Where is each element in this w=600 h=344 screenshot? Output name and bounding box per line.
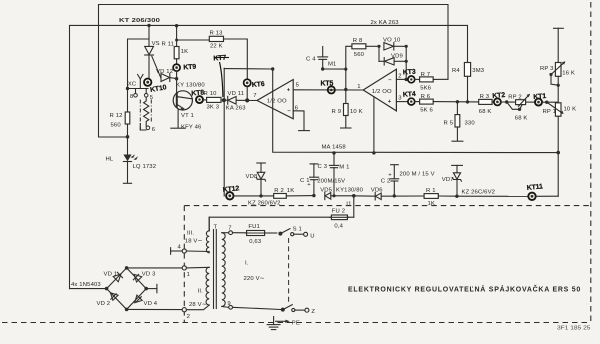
terminal 9 primary (222, 301, 233, 309)
node VS anode junction (147, 24, 150, 27)
svg-text:1: 1 (187, 272, 190, 278)
terminal 4 with stub (171, 245, 209, 255)
svg-text:3F1 185 25: 3F1 185 25 (557, 326, 591, 332)
wire main supply bus y=25 (70, 25, 468, 288)
wire feedback top line from R7 to left column (99, 5, 449, 138)
svg-text:KT1: KT1 (533, 93, 547, 101)
svg-text:R 10: R 10 (204, 91, 218, 97)
label 2x KA 263 (371, 20, 400, 26)
svg-text:VD 1: VD 1 (104, 272, 118, 278)
svg-text:I1: I1 (346, 202, 351, 208)
label KT 206/300 (119, 18, 161, 24)
svg-text:LQ 1732: LQ 1732 (133, 164, 157, 170)
svg-text:560: 560 (111, 122, 122, 128)
wire branch XC from VS anode (128, 39, 150, 89)
wire U1b noninverting input (396, 101, 408, 103)
diode VD12 (156, 69, 177, 82)
wire vertical to KT12 (223, 68, 225, 196)
svg-text:KT6: KT6 (252, 81, 266, 89)
svg-text:VD7: VD7 (442, 177, 454, 183)
svg-text:28 V∼: 28 V∼ (189, 302, 207, 308)
svg-text:R 5: R 5 (444, 120, 454, 126)
svg-text:8: 8 (130, 94, 134, 100)
capacitor C2 (381, 165, 435, 198)
svg-text:4x 1N5403: 4x 1N5403 (71, 282, 101, 288)
svg-text:220 V∼: 220 V∼ (244, 276, 265, 282)
svg-text:68 K: 68 K (515, 116, 528, 122)
svg-text:R4: R4 (452, 68, 460, 74)
diode VD10 (383, 37, 406, 50)
thyristor VS (145, 25, 161, 78)
test point KT12 (222, 185, 239, 199)
diode VD9 (379, 53, 406, 65)
svg-text:VD 2: VD 2 (97, 301, 111, 307)
wire KT12 to VD8 (234, 195, 274, 197)
svg-text:3K 3: 3K 3 (207, 105, 220, 111)
connector pin 6 (146, 126, 156, 133)
svg-text:+: + (388, 173, 392, 179)
heater core L (140, 124, 146, 131)
svg-text:0,4: 0,4 (334, 223, 343, 229)
svg-text:7: 7 (228, 226, 231, 232)
svg-text:2: 2 (398, 73, 401, 79)
switch S1 upper pole (278, 227, 303, 236)
wire bridge to terminal 2 (127, 308, 183, 310)
svg-text:6: 6 (152, 127, 156, 133)
svg-text:R 13: R 13 (210, 30, 224, 36)
svg-text:VD 4: VD 4 (144, 301, 158, 307)
ground chassis stub bridge negative (146, 284, 157, 292)
test point KT11 (526, 183, 543, 200)
resistor R9 (332, 90, 363, 129)
fuse FU2 (209, 208, 354, 230)
terminal Z (305, 308, 316, 315)
svg-text:RP 2: RP 2 (508, 94, 522, 100)
svg-text:KA 263: KA 263 (226, 105, 246, 111)
svg-text:VD 11: VD 11 (228, 91, 245, 97)
svg-text:R 2: R 2 (274, 188, 284, 194)
svg-text:10 K: 10 K (350, 109, 363, 115)
svg-text:VD 12: VD 12 (156, 69, 173, 75)
connector pin 5 (144, 89, 153, 102)
diode VD11 (226, 91, 257, 111)
svg-text:1/2 OO: 1/2 OO (372, 89, 392, 95)
op-amp U1b 1/2 MA1458 (357, 69, 402, 111)
svg-text:R 1: R 1 (426, 188, 436, 194)
wire op-amp U1a noninverting input to U1b output (293, 89, 363, 91)
svg-text:330: 330 (465, 120, 476, 126)
svg-text:3: 3 (398, 95, 402, 101)
svg-text:FU 2: FU 2 (332, 208, 345, 214)
svg-text:KT3: KT3 (403, 69, 416, 77)
svg-text:ELEKTRONICKY REGULOVATEĽNÁ SPÁ: ELEKTRONICKY REGULOVATEĽNÁ SPÁJKOVAČKA E… (348, 285, 581, 294)
wire U1b inverting input (396, 78, 408, 80)
svg-text:S 1: S 1 (293, 227, 302, 233)
resistor R7 (415, 72, 448, 92)
switch gang dashed link (288, 238, 290, 305)
resistor R8 feedback (346, 38, 379, 89)
wire KT11 to RP1 bottom (536, 195, 559, 197)
svg-text:KT9: KT9 (183, 64, 196, 72)
op-amp U1a 1/2 MA1458 (253, 80, 299, 119)
svg-text:KT4: KT4 (403, 91, 416, 99)
heating element dashed box (140, 100, 151, 132)
wire op-amp U1b power pin to bus (372, 97, 375, 155)
label drawing number 3F1 185 25 (557, 326, 591, 332)
node R11 top junction (175, 24, 178, 27)
resistor R11 (162, 26, 189, 64)
svg-text:II.: II. (198, 289, 204, 295)
test point KT10 (144, 79, 167, 94)
svg-text:7: 7 (253, 93, 256, 99)
transformer winding III (185, 217, 209, 253)
wire KT1 to RP1 (542, 101, 558, 104)
svg-text:MA 1458: MA 1458 (322, 144, 347, 150)
ground earth PE (267, 317, 300, 330)
svg-text:R 8: R 8 (353, 38, 363, 44)
test point KT8 (191, 89, 205, 103)
node VD10 left junction (377, 45, 380, 62)
test point KT6 (244, 79, 266, 102)
svg-text:U: U (310, 233, 314, 239)
svg-text:C 3: C 3 (318, 164, 328, 170)
svg-text:4: 4 (178, 245, 182, 251)
wire KT9 to VD12 node (175, 71, 178, 92)
wire vertical through U1a to common bus (273, 69, 559, 153)
test point KT4 (403, 91, 416, 105)
svg-text:2x KA 263: 2x KA 263 (371, 20, 400, 26)
diode VD2 (97, 293, 119, 308)
svg-text:C 2: C 2 (381, 178, 391, 184)
svg-text:1K: 1K (181, 49, 189, 55)
transformer T core (214, 225, 218, 309)
svg-text:1K: 1K (428, 201, 436, 207)
svg-text:KT5: KT5 (321, 81, 334, 88)
svg-text:VD8: VD8 (246, 174, 258, 180)
LED HL (106, 137, 157, 184)
resistor R12 (110, 89, 130, 137)
svg-text:RP 1: RP 1 (543, 109, 557, 115)
svg-text:+: + (388, 99, 392, 105)
transformer winding II (186, 267, 209, 309)
svg-text:KZ 26C/6V2: KZ 26C/6V2 (462, 190, 496, 196)
diode VD5 (320, 187, 363, 199)
svg-text:9: 9 (227, 301, 230, 307)
svg-text:M1: M1 (328, 61, 336, 67)
heater winding zigzag (144, 97, 149, 126)
svg-text:XC: XC (128, 81, 137, 87)
test point KT3 (403, 69, 416, 83)
svg-text:VD6: VD6 (371, 188, 383, 194)
svg-text:R 7: R 7 (421, 72, 431, 78)
resistor R6 (415, 94, 479, 114)
diode VD3 (133, 272, 156, 282)
resistor R10 (203, 91, 228, 111)
diode VD6 (354, 188, 424, 200)
svg-text:5K6: 5K6 (420, 85, 432, 91)
rectifier bridge VD1 VD2 VD3 VD4 (105, 266, 148, 311)
transformer winding I primary (222, 233, 265, 307)
svg-text:560: 560 (354, 52, 365, 58)
capacitor C1 (300, 164, 345, 197)
wire VD7 to KT11 (457, 195, 528, 197)
terminal 2 (182, 308, 190, 321)
svg-text:0,63: 0,63 (249, 239, 262, 245)
test point KT9 (173, 64, 196, 72)
terminal 1 (182, 266, 190, 278)
wire dashed enclosure border top of power section (184, 205, 590, 207)
terminal U (304, 232, 315, 239)
svg-text:18 V∼: 18 V∼ (185, 239, 203, 245)
zener diode VD8 (246, 163, 281, 206)
svg-text:KY130/80: KY130/80 (336, 187, 364, 193)
node I1 junction (346, 194, 355, 217)
wire dashed enclosure border right (590, 2, 592, 323)
svg-text:HL: HL (106, 157, 114, 163)
potentiometer RP3 (540, 28, 575, 103)
switch S1 lower pole (233, 305, 305, 312)
node VD9 VD10 right junction to inverting input (405, 45, 408, 81)
svg-text:2: 2 (187, 314, 190, 320)
svg-text:1: 1 (357, 84, 360, 90)
test point KT5 (321, 81, 335, 94)
fuse FU1 (233, 224, 277, 245)
label KT7 with pointer (213, 55, 229, 97)
wire DC positive to bridge (70, 282, 107, 289)
svg-text:R 6: R 6 (421, 94, 431, 100)
svg-text:VS: VS (152, 41, 160, 47)
node C4 branch left (271, 67, 274, 70)
svg-text:22 K: 22 K (210, 43, 223, 49)
svg-text:+: + (287, 87, 291, 93)
wire XC node bar (128, 88, 149, 90)
wire KT2 to RP2 (501, 100, 516, 103)
svg-text:VT 1: VT 1 (181, 113, 194, 119)
svg-text:R 9: R 9 (332, 109, 342, 115)
diode VD4 (135, 295, 158, 307)
svg-text:1K: 1K (287, 188, 295, 194)
svg-text:KFY 46: KFY 46 (181, 125, 202, 131)
connector pin 8 (130, 89, 137, 101)
svg-text:16 K: 16 K (562, 70, 575, 76)
zener diode VD7 (442, 165, 495, 198)
svg-text:Z: Z (311, 309, 315, 315)
svg-text:VD5: VD5 (320, 187, 332, 193)
svg-text:+: + (307, 182, 311, 188)
svg-text:1/2 OO: 1/2 OO (267, 99, 287, 105)
svg-text:R 11: R 11 (162, 42, 175, 48)
node R10 VD11 junction to KT12 branch (222, 98, 226, 102)
test point KT1 (533, 93, 547, 106)
capacitor C3 (318, 151, 350, 197)
svg-text:T: T (214, 225, 218, 231)
svg-text:68 K: 68 K (479, 109, 492, 115)
svg-text:200 M / 15 V: 200 M / 15 V (400, 171, 435, 177)
connector Y fork (138, 75, 143, 89)
svg-text:10 K: 10 K (564, 106, 577, 112)
wire bridge to terminal 1 (127, 267, 183, 269)
svg-text:RP 3: RP 3 (540, 66, 554, 72)
svg-text:VD9: VD9 (391, 53, 403, 59)
node R5 junction (456, 100, 459, 103)
svg-text:KT 206/300: KT 206/300 (119, 18, 161, 24)
potentiometer RP2 (507, 94, 535, 122)
svg-text:III.: III. (187, 230, 194, 236)
resistor R2 (274, 188, 314, 198)
ground op-amp U1a inverting input (293, 111, 309, 131)
resistor R13 (175, 30, 247, 79)
node R12 HL junction (126, 135, 130, 139)
label MA 1458 (322, 144, 347, 150)
resistor R4 (452, 63, 485, 104)
node R8 feedback junction (344, 88, 347, 91)
wire dashed enclosure border left of power section (183, 206, 185, 323)
svg-text:FU1: FU1 (248, 224, 260, 230)
svg-text:R 3: R 3 (480, 94, 490, 100)
svg-text:R 12: R 12 (110, 113, 123, 119)
resistor R5 (444, 102, 476, 141)
resistor R1 (424, 188, 457, 207)
svg-text:VO 10: VO 10 (383, 37, 401, 43)
svg-text:200M/15V: 200M/15V (317, 179, 345, 185)
svg-text:5: 5 (296, 83, 300, 89)
wire dashed enclosure border bottom (2, 322, 591, 324)
wire op-amp U1a output node horizontal (224, 68, 273, 70)
svg-text:PE: PE (292, 320, 300, 326)
test point KT2 (492, 92, 506, 106)
terminal 7 primary (222, 226, 233, 235)
svg-text:KT7: KT7 (213, 55, 226, 63)
svg-text:5K 6: 5K 6 (420, 108, 433, 114)
diode VD1 (104, 272, 123, 282)
svg-text:KT2: KT2 (492, 92, 506, 100)
svg-text:C 4: C 4 (306, 56, 316, 62)
svg-text:KZ 260/6V2: KZ 260/6V2 (248, 200, 281, 206)
node RP1 bus junction (556, 151, 560, 155)
potentiometer RP1 (543, 102, 577, 196)
label title (348, 285, 581, 294)
transistor VT1 (171, 82, 206, 130)
svg-text:M 1: M 1 (339, 164, 349, 170)
resistor R3 (479, 94, 494, 115)
svg-text:I.: I. (245, 261, 249, 267)
wire C4 node to R8 branch (323, 68, 348, 71)
node XC junction (126, 81, 137, 90)
svg-text:VD 3: VD 3 (142, 272, 156, 278)
capacitor C4 (306, 47, 336, 71)
svg-text:3M3: 3M3 (472, 68, 484, 74)
svg-text:KY 130/80: KY 130/80 (176, 82, 205, 88)
